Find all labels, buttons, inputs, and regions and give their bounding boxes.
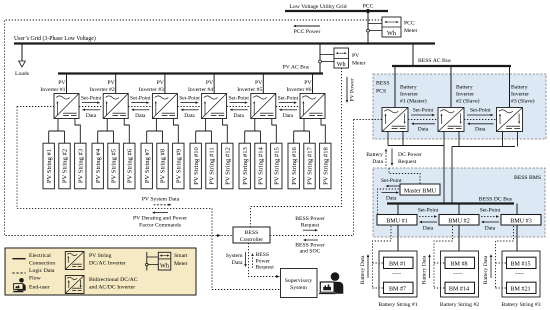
PV inverter #3	[152, 94, 177, 119]
svg-text:BM #1: BM #1	[389, 262, 406, 268]
svg-text:BM #21: BM #21	[510, 287, 530, 293]
legend logic data flow	[12, 268, 54, 282]
PV derating label	[133, 211, 187, 228]
PV string #11	[206, 143, 217, 189]
battery module #15	[507, 257, 537, 268]
svg-text:PCS: PCS	[376, 89, 386, 95]
svg-text:Data: Data	[86, 113, 97, 119]
svg-text:PV String #7: PV String #7	[144, 148, 151, 183]
svg-text:System: System	[290, 285, 307, 291]
PV inverter #4 label	[188, 80, 214, 93]
svg-text:PV String #12: PV String #12	[224, 147, 231, 185]
svg-text:Inverter #2: Inverter #2	[90, 87, 115, 93]
svg-text:Set-Point: Set-Point	[381, 178, 402, 184]
battery inverter 2	[438, 108, 464, 132]
svg-text:Meter: Meter	[404, 28, 418, 34]
PV string #18	[320, 143, 331, 189]
wire inverter #4 to strings 10,11	[196, 119, 212, 144]
wire inverter #1 to strings 1,2	[49, 119, 65, 144]
battery inverter 3	[497, 108, 523, 132]
set-point to BMUs	[378, 178, 402, 215]
PV logic dashed line left stub	[17, 106, 54, 108]
PV inverter #5 label	[237, 80, 263, 93]
dashed into supervisory	[212, 289, 280, 291]
set-point arrow PV inv 2-3	[128, 95, 152, 119]
svg-text:Smart: Smart	[174, 253, 188, 259]
PV string #17	[304, 143, 315, 189]
loads arrow	[15, 45, 30, 78]
wire inverter #6 to string 18	[321, 119, 325, 144]
battery string #3 outer box	[502, 251, 540, 297]
battery data rail string 3	[496, 226, 514, 288]
svg-text:Data: Data	[423, 226, 434, 232]
BESS AC bus line	[392, 58, 511, 66]
PV inverter #2	[103, 94, 128, 119]
svg-text:Electrical: Electrical	[29, 253, 51, 259]
svg-text:Set-Point: Set-Point	[81, 95, 102, 101]
svg-text:PV String #4: PV String #4	[95, 148, 102, 183]
wire DC bus to battery string 1	[397, 204, 399, 258]
wire PV AC bus to inverter #4	[213, 74, 215, 94]
PV inverter #6	[300, 94, 325, 119]
svg-text:PV Derating and Power: PV Derating and Power	[133, 216, 187, 222]
svg-text:Logic Data: Logic Data	[29, 268, 55, 274]
battery module #1	[384, 257, 414, 268]
svg-text:#2 (Slave): #2 (Slave)	[456, 98, 480, 105]
wire inverter #1 to string 3	[75, 119, 80, 144]
wire inverter #3 to strings 7,8	[147, 119, 163, 144]
svg-text:Inverter: Inverter	[400, 92, 418, 98]
PV string #3	[75, 143, 86, 189]
PV inverter #6 label	[286, 80, 312, 93]
svg-text:Master BMU: Master BMU	[404, 189, 437, 195]
svg-text:PV String #18: PV String #18	[322, 146, 329, 184]
wire inverter #5 to string 15	[272, 119, 277, 144]
PV inverter #3 label	[139, 80, 165, 93]
svg-text:Request: Request	[398, 159, 417, 165]
svg-text:PV String #14: PV String #14	[258, 146, 265, 184]
BESS power and SOC label	[295, 239, 325, 255]
svg-text:BESS DC Bus: BESS DC Bus	[479, 197, 513, 203]
PV string #1	[43, 143, 54, 189]
svg-text:PCC Power: PCC Power	[294, 29, 321, 35]
svg-text:BESS: BESS	[256, 252, 270, 258]
svg-text:BM #7: BM #7	[389, 287, 406, 293]
svg-text:Battery Data: Battery Data	[360, 255, 366, 284]
wire inverter #3 to string 9	[173, 119, 178, 144]
wire DC bus to battery string 2	[458, 204, 460, 258]
ellipsis string 3	[515, 270, 524, 276]
svg-text:Request: Request	[301, 223, 320, 229]
wire PV AC bus to inverter #6	[312, 74, 314, 94]
legend smart meter icon	[146, 252, 189, 271]
PV system data label	[142, 196, 180, 206]
ellipsis string 2	[453, 270, 462, 276]
svg-text:Set-Point: Set-Point	[480, 207, 501, 213]
svg-text:Meter: Meter	[352, 61, 366, 67]
svg-text:Data: Data	[372, 159, 383, 165]
svg-text:Supervisory: Supervisory	[285, 278, 313, 284]
wire inverter #2 to strings 4,5	[98, 119, 114, 144]
svg-text:PV String #3: PV String #3	[77, 148, 84, 183]
battery module #8	[445, 257, 475, 268]
PV string #15	[271, 143, 282, 189]
PV inverter #2 label	[90, 80, 116, 93]
PV logic dashed vertical	[16, 107, 18, 209]
BESS PCS region box	[373, 74, 546, 139]
svg-text:BM #14: BM #14	[449, 287, 469, 293]
svg-text:PV String #2: PV String #2	[62, 149, 69, 183]
BESS BMS region box	[373, 168, 545, 237]
master BMU routing dashes	[389, 168, 420, 184]
svg-text:and SOC: and SOC	[300, 249, 321, 255]
svg-text:Set-Point: Set-Point	[413, 108, 434, 114]
PV power dotted route to BESS controller	[251, 68, 342, 227]
svg-text:Inverter: Inverter	[511, 92, 529, 98]
svg-text:End-user: End-user	[29, 285, 50, 291]
PCC Power arrow	[293, 25, 320, 35]
svg-text:Wh: Wh	[387, 30, 397, 37]
battery module #7	[384, 282, 414, 293]
legend PV string inverter icon	[65, 252, 126, 270]
svg-text:Battery: Battery	[456, 85, 473, 91]
svg-text:PV System Data: PV System Data	[142, 196, 180, 202]
wire DC bus to battery string 3	[516, 204, 518, 258]
svg-text:Wh: Wh	[337, 61, 347, 68]
PV string #16	[288, 143, 299, 189]
svg-text:Bidirectional DC/AC: Bidirectional DC/AC	[89, 277, 138, 283]
svg-text:BESS: BESS	[245, 230, 259, 236]
data-flow arrowhead into BESS controller	[217, 234, 221, 237]
PV meter	[319, 48, 366, 68]
PV string #6	[124, 143, 135, 189]
low voltage utility grid line	[285, 4, 388, 11]
wire BESS AC bus to battery inverter 2	[450, 66, 452, 108]
PV system data dashed line	[17, 207, 212, 209]
PV string #13	[239, 143, 250, 189]
svg-text:BMU #3: BMU #3	[510, 219, 532, 225]
svg-text:PV String #17: PV String #17	[307, 146, 314, 184]
svg-text:PV String #13: PV String #13	[242, 146, 249, 184]
PV string #10	[190, 143, 201, 189]
svg-text:System: System	[226, 253, 243, 259]
svg-text:Data: Data	[283, 113, 294, 119]
dashed vertical to BESS PCS	[353, 120, 355, 236]
dashed into battery inverter 1	[354, 119, 383, 121]
battery inverter 2 label	[456, 85, 480, 105]
bess power request up arrow	[251, 252, 274, 271]
wire BESS AC bus to battery inverter 3	[509, 66, 511, 108]
BESS power request label	[295, 216, 325, 231]
svg-text:Battery: Battery	[400, 85, 417, 91]
wire PCC vertical	[367, 9, 369, 44]
svg-text:Meter: Meter	[174, 261, 188, 267]
svg-text:Data: Data	[418, 127, 429, 133]
PV string #4	[92, 143, 103, 189]
svg-text:PV: PV	[107, 80, 115, 86]
svg-text:BESS: BESS	[376, 81, 390, 87]
BESS controller box	[233, 227, 270, 243]
svg-text:Connection: Connection	[29, 261, 55, 267]
svg-text:Set-Point: Set-Point	[470, 108, 491, 114]
battery string #2 outer box	[441, 251, 479, 297]
PCC meter	[367, 17, 418, 37]
legend end-user icon	[13, 278, 50, 292]
PV string #5	[108, 143, 119, 189]
svg-text:Inverter #3: Inverter #3	[139, 87, 164, 93]
wire battery inverter 1 DC collector	[388, 132, 444, 204]
svg-text:Data: Data	[184, 113, 195, 119]
svg-text:PV String #10: PV String #10	[193, 146, 200, 184]
battery string #1 label	[378, 302, 417, 308]
battery data arrow string 1	[360, 254, 369, 284]
battery data rail string 2	[434, 226, 453, 288]
svg-text:#3 (Slave): #3 (Slave)	[511, 98, 535, 105]
battery inverter 1 label	[400, 85, 427, 105]
svg-text:PV: PV	[58, 80, 66, 86]
PV string #8	[157, 143, 168, 189]
end-user person icon	[318, 272, 343, 294]
svg-text:User’s Grid (3-Phase Low Volta: User’s Grid (3-Phase Low Voltage)	[14, 35, 96, 42]
ellipsis string 1	[392, 270, 401, 276]
svg-text:Data: Data	[475, 127, 486, 133]
svg-text:PV String #1: PV String #1	[46, 149, 53, 183]
svg-text:BM #15: BM #15	[510, 262, 530, 268]
legend box	[5, 248, 196, 295]
system data arrow	[226, 252, 247, 267]
svg-text:Factor Commands: Factor Commands	[139, 223, 182, 229]
svg-text:Inverter: Inverter	[456, 92, 474, 98]
set-point arrow batt inv 2-3	[464, 108, 497, 133]
wire grid to PV AC bus	[319, 44, 321, 74]
svg-text:Wh: Wh	[160, 262, 170, 269]
set-point arrow PV inv 3-4	[177, 95, 201, 119]
set-point arrow PV inv 5-6	[276, 95, 300, 119]
wire BESS AC bus to battery inverter 1	[394, 66, 396, 108]
dashed vertical to supervisory	[211, 208, 213, 289]
svg-text:PV String #16: PV String #16	[291, 146, 298, 184]
battery data arrow string 2	[422, 254, 431, 284]
BMU #3 box	[501, 215, 541, 226]
svg-text:PV: PV	[352, 53, 360, 59]
svg-text:PCC: PCC	[404, 21, 415, 27]
legend bidirectional inverter icon	[65, 276, 137, 294]
controller-BESS dashed line	[270, 235, 354, 237]
svg-text:Data: Data	[386, 196, 397, 202]
svg-text:Data: Data	[232, 260, 243, 266]
svg-text:PV: PV	[304, 80, 312, 86]
battery data rail string 1	[373, 226, 392, 288]
set-point arrow BMU 1-2	[418, 207, 439, 231]
svg-text:Data: Data	[485, 226, 496, 232]
svg-text:BMU #1: BMU #1	[386, 219, 408, 225]
PV inverter #1 label	[40, 80, 66, 93]
wire grid to BESS AC bus	[412, 44, 414, 67]
wire PV AC bus to inverter #5	[262, 74, 264, 94]
svg-text:Inverter #1: Inverter #1	[40, 87, 65, 93]
PV string #7	[141, 143, 152, 189]
BMU #2 box	[439, 215, 479, 226]
svg-text:PV: PV	[157, 80, 165, 86]
battery data arrow string 3	[483, 254, 492, 284]
svg-text:Battery: Battery	[366, 152, 383, 158]
PV inverter #5	[251, 94, 276, 119]
wire inverter #2 to string 6	[124, 119, 129, 144]
svg-text:PCC: PCC	[363, 4, 374, 10]
svg-text:Set-Point: Set-Point	[418, 207, 439, 213]
set-point arrow PV inv 4-5	[227, 95, 251, 119]
battery inverter 1	[382, 108, 408, 132]
BMU #1 box	[377, 215, 417, 226]
svg-text:DC Power: DC Power	[398, 152, 422, 158]
svg-text:Set-Point: Set-Point	[228, 95, 249, 101]
svg-text:-----: -----	[515, 270, 524, 276]
svg-text:Request: Request	[256, 265, 275, 271]
wire PV AC bus to inverter #2	[115, 74, 117, 94]
svg-text:Low Voltage Utility Grid: Low Voltage Utility Grid	[289, 4, 346, 10]
svg-text:Power: Power	[256, 258, 271, 264]
svg-text:Controller: Controller	[240, 237, 263, 243]
PV string #12	[222, 143, 233, 189]
battery string #3 label	[501, 302, 540, 308]
svg-text:Inverter #6: Inverter #6	[286, 87, 311, 93]
svg-text:Battery Data: Battery Data	[483, 255, 489, 284]
svg-text:PV String #5: PV String #5	[111, 148, 118, 183]
svg-text:Inverter #5: Inverter #5	[237, 87, 262, 93]
svg-text:PV String #11: PV String #11	[209, 147, 216, 184]
svg-text:PV String #6: PV String #6	[126, 148, 133, 183]
controller-supervisory dashed	[249, 243, 281, 278]
PV string #9	[173, 143, 184, 189]
wire inverter #4 to string 12	[223, 119, 228, 144]
svg-text:BM #8: BM #8	[450, 262, 467, 268]
svg-text:Inverter #4: Inverter #4	[188, 87, 213, 93]
user's grid boundary (dashed)	[5, 20, 383, 236]
battery data arrow	[366, 149, 387, 167]
svg-text:PV String: PV String	[89, 253, 112, 259]
svg-text:Battery String #3: Battery String #3	[501, 302, 540, 308]
svg-text:Flow: Flow	[29, 276, 42, 282]
svg-text:BESS Power: BESS Power	[295, 216, 325, 222]
svg-text:#1 (Master): #1 (Master)	[400, 98, 427, 105]
supervisory system box	[281, 269, 318, 298]
battery module #14	[445, 282, 475, 293]
PV power arrow	[346, 77, 356, 103]
wire inverter #5 to strings 13,14	[245, 119, 261, 144]
svg-text:Set-Point: Set-Point	[179, 95, 200, 101]
svg-text:Data: Data	[234, 113, 245, 119]
PV inverter #4	[202, 94, 227, 119]
svg-text:-----: -----	[453, 270, 462, 276]
wire PV AC bus to inverter #1	[66, 74, 68, 94]
svg-text:Battery: Battery	[511, 85, 528, 91]
PV string #14	[255, 143, 266, 189]
svg-text:PV: PV	[206, 80, 214, 86]
svg-text:BESS BMS: BESS BMS	[514, 175, 541, 181]
wire inverter #6 to strings 16,17	[294, 119, 310, 144]
svg-text:Battery String #2: Battery String #2	[440, 302, 479, 308]
PV string #2	[59, 143, 70, 189]
set-point arrow PV inv 1-2	[79, 95, 103, 119]
legend electrical connection	[12, 253, 55, 267]
node PCC	[363, 4, 374, 14]
battery string #1 outer box	[379, 251, 417, 297]
svg-text:PV AC Bus: PV AC Bus	[283, 65, 310, 71]
svg-text:PV String #15: PV String #15	[273, 146, 280, 184]
svg-text:Loads: Loads	[15, 71, 30, 77]
svg-text:Set-Point: Set-Point	[130, 95, 151, 101]
svg-text:Battery Data: Battery Data	[422, 255, 428, 284]
svg-text:PV Power: PV Power	[350, 78, 356, 101]
master BMU box	[400, 184, 440, 195]
svg-text:and AC/DC Inverter: and AC/DC Inverter	[89, 285, 135, 291]
svg-text:PV String #8: PV String #8	[160, 148, 167, 183]
wire PV AC bus to inverter #3	[164, 74, 166, 94]
svg-text:Battery String #1: Battery String #1	[378, 302, 417, 308]
BESS DC bus line	[387, 197, 514, 204]
svg-text:-----: -----	[392, 270, 401, 276]
svg-text:PV: PV	[255, 80, 263, 86]
svg-text:Data: Data	[135, 113, 146, 119]
battery module #21	[507, 282, 537, 293]
PV AC bus line	[58, 65, 323, 74]
dc power request arrow	[391, 149, 422, 167]
PV inverter #1	[54, 94, 79, 119]
set-point arrow batt inv 1-2	[408, 108, 438, 133]
svg-text:DC/AC Inverter: DC/AC Inverter	[89, 261, 126, 267]
svg-text:BMU #2: BMU #2	[448, 219, 470, 225]
svg-text:Set-Point: Set-Point	[278, 95, 299, 101]
battery string #2 label	[440, 302, 479, 308]
battery inverter 3 label	[511, 85, 535, 105]
svg-text:PV String #9: PV String #9	[175, 148, 182, 183]
user's grid bus line	[14, 35, 435, 44]
svg-text:BESS AC Bus: BESS AC Bus	[418, 58, 452, 64]
wire battery inverter 3 DC collector	[452, 132, 518, 204]
set-point arrow BMU 2-3	[480, 207, 501, 231]
